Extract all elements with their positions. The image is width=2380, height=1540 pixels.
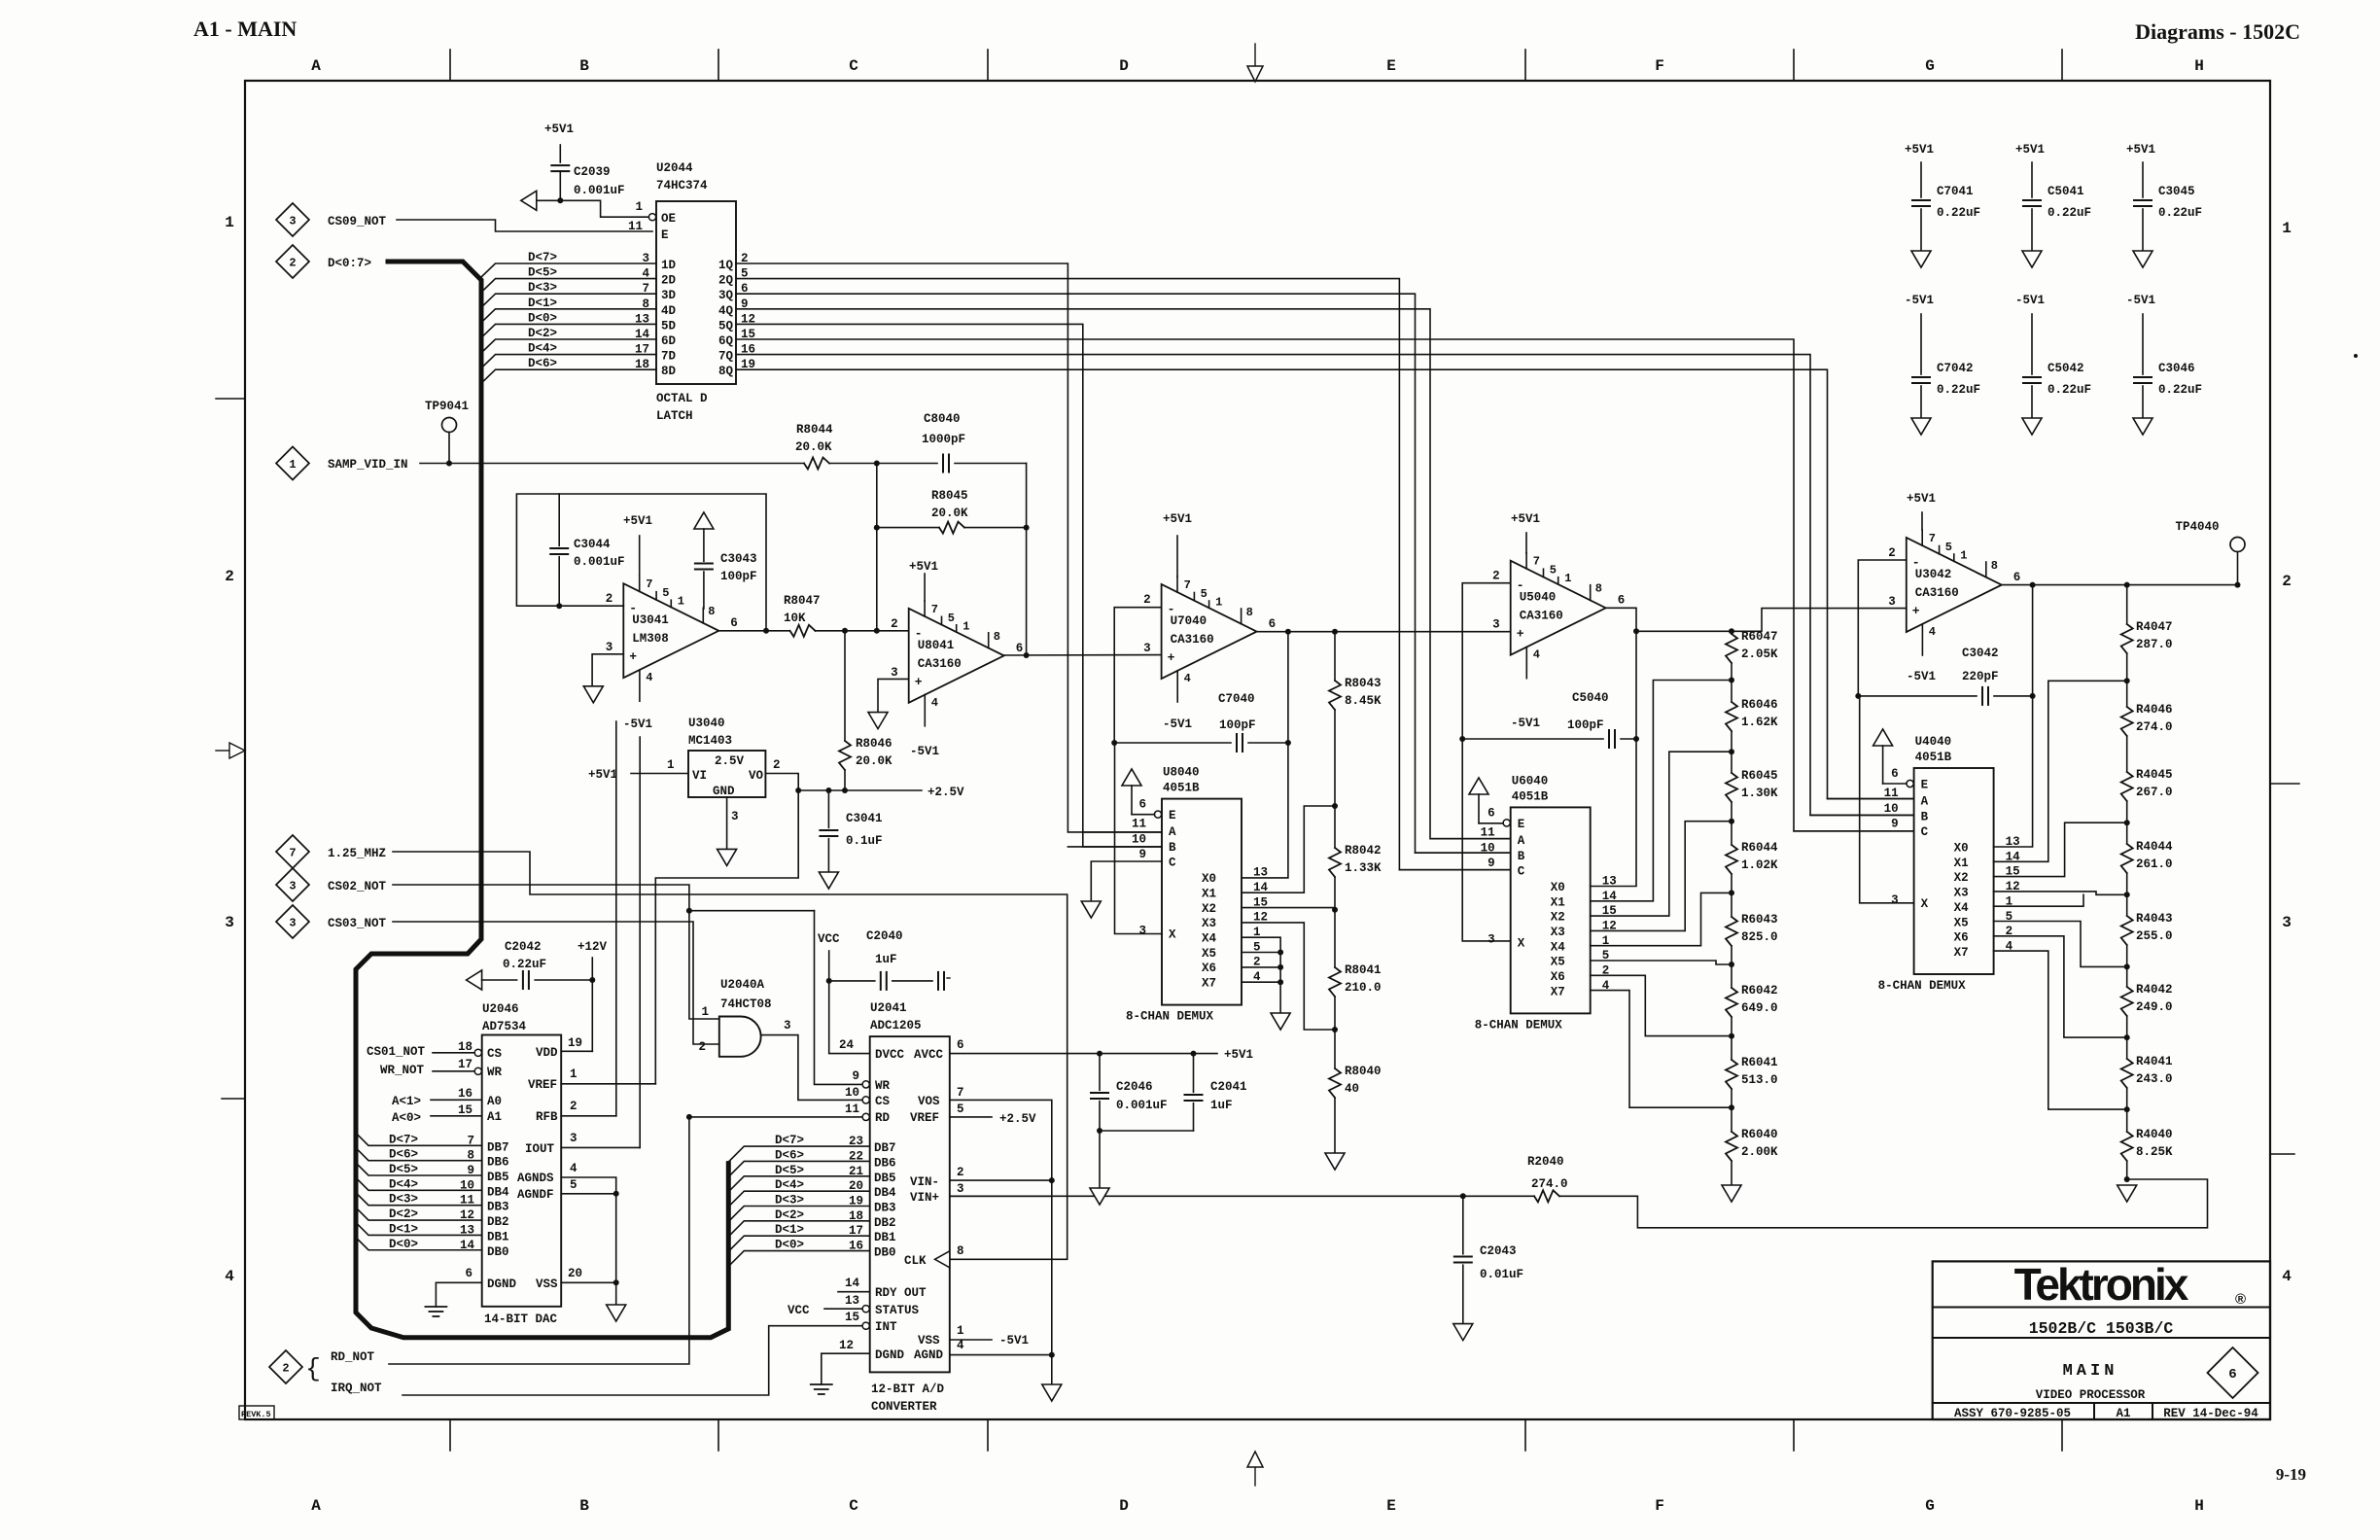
wire U6040 B bbox=[1416, 852, 1511, 854]
wire DAC AGNDS/AGNDF/VSS bbox=[561, 1177, 616, 1282]
svg-text:D: D bbox=[1119, 1497, 1129, 1515]
svg-text:8-CHAN DEMUX: 8-CHAN DEMUX bbox=[1878, 979, 1967, 993]
svg-text:R4044: R4044 bbox=[2136, 840, 2173, 854]
svg-text:U3041: U3041 bbox=[632, 613, 669, 627]
svg-text:5: 5 bbox=[662, 586, 669, 600]
svg-text:267.0: 267.0 bbox=[2136, 786, 2173, 799]
wire U2040A output to ADC CS bbox=[761, 1035, 862, 1101]
resistor R4047 bbox=[2126, 585, 2128, 624]
svg-text:A0: A0 bbox=[487, 1095, 502, 1108]
svg-text:2: 2 bbox=[957, 1166, 964, 1179]
svg-text:D<2>: D<2> bbox=[775, 1208, 804, 1222]
wire ADC VSS -5V1 bbox=[950, 1339, 992, 1341]
op-amp U3042 CA3160 bbox=[1907, 538, 2002, 632]
svg-text:D<0>: D<0> bbox=[389, 1238, 418, 1251]
svg-text:10: 10 bbox=[845, 1086, 859, 1100]
svg-text:74HCT08: 74HCT08 bbox=[720, 997, 772, 1011]
svg-text:12: 12 bbox=[839, 1339, 854, 1352]
svg-text:R8046: R8046 bbox=[856, 737, 892, 751]
svg-text:F: F bbox=[1655, 57, 1664, 75]
resistor R4044 bbox=[2126, 822, 2128, 844]
svg-text:3: 3 bbox=[2282, 914, 2292, 931]
svg-text:4: 4 bbox=[646, 671, 652, 684]
wire ADC AGND vertical bbox=[1051, 1180, 1053, 1355]
svg-text:E: E bbox=[1518, 818, 1525, 831]
svg-text:B: B bbox=[1169, 841, 1176, 855]
svg-text:11: 11 bbox=[1132, 818, 1146, 831]
svg-text:X3: X3 bbox=[1551, 926, 1565, 939]
wire U4040 A bbox=[1828, 798, 1914, 800]
resistor R4041 bbox=[2126, 1037, 2128, 1059]
svg-text:9-19: 9-19 bbox=[2276, 1465, 2306, 1484]
wire ADC VOS to VIN- bbox=[950, 1100, 1052, 1180]
connector D<0:7> bbox=[276, 245, 309, 278]
svg-text:10K: 10K bbox=[784, 612, 806, 625]
ground U8040 C pin bbox=[1091, 861, 1162, 901]
svg-text:274.0: 274.0 bbox=[1531, 1177, 1568, 1191]
svg-text:IOUT: IOUT bbox=[525, 1142, 555, 1156]
svg-text:RDY OUT: RDY OUT bbox=[875, 1286, 927, 1300]
svg-text:X4: X4 bbox=[1202, 932, 1217, 946]
svg-text:R4047: R4047 bbox=[2136, 620, 2173, 634]
svg-text:1Q: 1Q bbox=[718, 259, 734, 272]
svg-text:DGND: DGND bbox=[875, 1348, 905, 1362]
svg-text:WR: WR bbox=[487, 1066, 503, 1079]
svg-text:R6047: R6047 bbox=[1741, 630, 1778, 644]
wire DAC D<3> bbox=[356, 1193, 482, 1206]
svg-text:U3042: U3042 bbox=[1915, 568, 1952, 581]
svg-text:X1: X1 bbox=[1954, 857, 1969, 870]
ground arrow R4040 bbox=[2124, 1176, 2130, 1182]
connector SAMP_VID_IN bbox=[276, 447, 309, 480]
svg-text:Tektronix: Tektronix bbox=[2014, 1259, 2189, 1310]
svg-text:-5V1: -5V1 bbox=[1511, 717, 1540, 730]
svg-text:14-BIT DAC: 14-BIT DAC bbox=[484, 1312, 558, 1326]
power arrow left C2039 bbox=[521, 191, 537, 210]
svg-text:5D: 5D bbox=[661, 319, 677, 332]
svg-text:3: 3 bbox=[1487, 932, 1495, 946]
svg-text:1: 1 bbox=[570, 1067, 577, 1081]
svg-text:74HC374: 74HC374 bbox=[656, 179, 708, 192]
svg-text:1: 1 bbox=[678, 595, 684, 609]
svg-text:1.30K: 1.30K bbox=[1741, 787, 1778, 800]
svg-text:VIN+: VIN+ bbox=[910, 1191, 939, 1205]
svg-text:+: + bbox=[1912, 604, 1920, 618]
svg-text:20.0K: 20.0K bbox=[931, 507, 968, 520]
svg-text:R6043: R6043 bbox=[1741, 913, 1778, 927]
wire U3042 pin2 feedback bbox=[1858, 560, 1907, 696]
wire ADC D<6> bbox=[728, 1161, 869, 1176]
resistor R4043 bbox=[2126, 894, 2128, 916]
svg-text:-5V1: -5V1 bbox=[1905, 294, 1934, 307]
svg-text:{: { bbox=[305, 1354, 321, 1383]
svg-text:D<7>: D<7> bbox=[528, 251, 557, 264]
svg-text:D<5>: D<5> bbox=[528, 266, 557, 280]
svg-text:C: C bbox=[1169, 857, 1176, 870]
capacitor C8040 bbox=[878, 463, 937, 465]
svg-text:DB6: DB6 bbox=[487, 1156, 509, 1170]
wire ADC D<0> bbox=[728, 1251, 869, 1267]
wire ADC D<2> bbox=[728, 1221, 869, 1237]
svg-text:X7: X7 bbox=[1202, 977, 1216, 991]
svg-text:C3043: C3043 bbox=[720, 552, 757, 566]
svg-text:1: 1 bbox=[635, 200, 643, 214]
svg-text:CA3160: CA3160 bbox=[918, 657, 962, 671]
svg-text:H: H bbox=[2194, 57, 2204, 75]
svg-text:20: 20 bbox=[568, 1267, 582, 1280]
svg-text:A<1>: A<1> bbox=[392, 1095, 421, 1108]
svg-text:D<1>: D<1> bbox=[389, 1222, 418, 1236]
svg-text:4Q: 4Q bbox=[718, 304, 734, 318]
wire U4040 X1 bbox=[1994, 681, 2127, 861]
resistor R8047 bbox=[790, 625, 816, 637]
svg-text:X7: X7 bbox=[1551, 985, 1565, 998]
svg-text:0.001uF: 0.001uF bbox=[574, 555, 625, 569]
wire latch 1Q to demux bbox=[736, 263, 1162, 832]
svg-text:X5: X5 bbox=[1551, 956, 1565, 969]
svg-text:1.02K: 1.02K bbox=[1741, 858, 1778, 872]
svg-text:MAIN: MAIN bbox=[2063, 1362, 2118, 1381]
sheet diamond 6 bbox=[2208, 1347, 2258, 1398]
svg-text:D<0>: D<0> bbox=[775, 1239, 804, 1252]
svg-text:REV 14-Dec-94: REV 14-Dec-94 bbox=[2163, 1407, 2258, 1420]
svg-text:16: 16 bbox=[458, 1087, 472, 1101]
svg-text:11: 11 bbox=[628, 220, 643, 233]
wire U4040 X3 bbox=[1994, 892, 2127, 894]
svg-text:2: 2 bbox=[1888, 546, 1896, 560]
wire DAC D<5> bbox=[356, 1163, 482, 1175]
svg-text:8: 8 bbox=[1246, 606, 1253, 619]
svg-text:CA3160: CA3160 bbox=[1915, 586, 1959, 600]
svg-text:274.0: 274.0 bbox=[2136, 720, 2173, 734]
resistor R8041 bbox=[1334, 910, 1336, 967]
svg-text:C2042: C2042 bbox=[505, 940, 542, 954]
wire U6040 X2 bbox=[1591, 752, 1732, 916]
op-amp U7040 CA3160 bbox=[1162, 584, 1257, 679]
wire latch 8Q to demux bbox=[736, 369, 1914, 798]
wire decoupling bottom rail bbox=[1100, 1130, 1194, 1132]
svg-text:D<0:7>: D<0:7> bbox=[328, 257, 371, 270]
resistor R4042 bbox=[2126, 966, 2128, 987]
svg-text:3D: 3D bbox=[661, 289, 677, 302]
wire SAMP_VID_IN row bbox=[420, 463, 804, 465]
svg-text:C3044: C3044 bbox=[574, 538, 611, 551]
svg-text:D<4>: D<4> bbox=[528, 342, 557, 356]
svg-text:6: 6 bbox=[957, 1038, 964, 1052]
wire U3040 VO to +2.5V node bbox=[765, 774, 798, 791]
svg-text:G: G bbox=[1925, 57, 1935, 75]
svg-text:1000pF: 1000pF bbox=[922, 433, 965, 446]
rev box REVK.5 bbox=[239, 1406, 274, 1419]
svg-text:3: 3 bbox=[1888, 595, 1896, 609]
svg-text:X: X bbox=[1921, 897, 1929, 911]
svg-text:100pF: 100pF bbox=[1567, 718, 1604, 732]
svg-text:VSS: VSS bbox=[536, 1277, 558, 1291]
svg-text:TP9041: TP9041 bbox=[425, 400, 469, 413]
svg-text:DB5: DB5 bbox=[487, 1171, 509, 1184]
bus D<0:7> thick bbox=[356, 262, 728, 1338]
svg-text:C8040: C8040 bbox=[924, 412, 961, 426]
svg-text:X5: X5 bbox=[1954, 916, 1969, 929]
wire C7040 to output bbox=[1287, 632, 1289, 743]
capacitor C3041 bbox=[827, 790, 829, 827]
svg-text:R4043: R4043 bbox=[2136, 912, 2173, 926]
svg-text:VIN-: VIN- bbox=[910, 1175, 939, 1189]
svg-text:1: 1 bbox=[289, 458, 296, 472]
capacitor C2043 bbox=[1462, 1196, 1464, 1254]
wire IOUT riser bbox=[639, 737, 641, 1147]
svg-text:R6046: R6046 bbox=[1741, 698, 1778, 712]
svg-text:VCC: VCC bbox=[818, 932, 840, 946]
wire C2039 to OE bbox=[537, 200, 648, 217]
svg-text:4: 4 bbox=[1533, 648, 1540, 662]
svg-text:U7040: U7040 bbox=[1171, 614, 1207, 628]
svg-text:20.0K: 20.0K bbox=[795, 440, 832, 454]
wire U4040 B bbox=[1810, 814, 1914, 816]
svg-text:287.0: 287.0 bbox=[2136, 638, 2173, 651]
svg-text:5: 5 bbox=[1945, 541, 1952, 554]
svg-text:+5V1: +5V1 bbox=[1907, 492, 1936, 506]
svg-text:E: E bbox=[661, 228, 669, 242]
svg-text:CS03_NOT: CS03_NOT bbox=[328, 917, 387, 930]
power arrow U6040 E bbox=[1469, 778, 1488, 794]
svg-text:6: 6 bbox=[1618, 594, 1626, 608]
svg-text:1: 1 bbox=[2282, 220, 2292, 237]
svg-text:DB1: DB1 bbox=[487, 1230, 509, 1243]
svg-text:1: 1 bbox=[225, 214, 234, 231]
svg-text:10: 10 bbox=[1132, 833, 1146, 847]
svg-text:7: 7 bbox=[1533, 555, 1540, 569]
svg-text:D<7>: D<7> bbox=[389, 1133, 418, 1146]
wire DAC IOUT bbox=[561, 1146, 640, 1148]
svg-text:VREF: VREF bbox=[910, 1111, 939, 1125]
svg-text:VDD: VDD bbox=[536, 1046, 558, 1060]
grid row tick left bbox=[216, 398, 245, 400]
svg-text:4: 4 bbox=[931, 696, 938, 710]
wire U6040 X3 bbox=[1591, 822, 1732, 931]
resistor R6040 bbox=[1731, 1107, 1732, 1132]
svg-text:3: 3 bbox=[289, 880, 296, 893]
wire D input D<6> bbox=[481, 369, 656, 383]
svg-text:C3045: C3045 bbox=[2158, 185, 2195, 198]
svg-text:2: 2 bbox=[225, 568, 234, 585]
wire D input D<3> bbox=[481, 294, 656, 307]
grid row tick left lower bbox=[222, 1098, 245, 1100]
wire U4040 X to C3042 row bbox=[1860, 696, 1914, 903]
svg-text:D<3>: D<3> bbox=[389, 1193, 418, 1207]
wire latch 4Q to demux bbox=[736, 309, 1511, 839]
wire ADC RDY OUT stub bbox=[838, 1291, 870, 1293]
svg-text:R6041: R6041 bbox=[1741, 1056, 1778, 1069]
svg-text:3: 3 bbox=[289, 917, 296, 930]
svg-text:4051B: 4051B bbox=[1512, 789, 1549, 803]
svg-text:0.1uF: 0.1uF bbox=[846, 834, 883, 848]
svg-text:0.22uF: 0.22uF bbox=[2158, 206, 2202, 220]
svg-text:IRQ_NOT: IRQ_NOT bbox=[331, 1382, 382, 1395]
svg-text:X1: X1 bbox=[1551, 895, 1565, 909]
svg-text:2: 2 bbox=[282, 1362, 289, 1376]
wire D input D<0> bbox=[481, 324, 656, 337]
svg-text:C5042: C5042 bbox=[2047, 362, 2084, 375]
grid top arrow at D/E bbox=[1254, 44, 1256, 66]
wire CS09_NOT to latch bbox=[397, 220, 652, 231]
svg-text:4051B: 4051B bbox=[1163, 782, 1200, 795]
svg-text:X2: X2 bbox=[1202, 902, 1216, 916]
svg-text:CA3160: CA3160 bbox=[1520, 610, 1563, 623]
svg-text:13: 13 bbox=[845, 1294, 859, 1308]
wire U7040 pin2 feedback bbox=[1114, 608, 1161, 743]
svg-text:6: 6 bbox=[1487, 806, 1495, 820]
capacitor C3045 bbox=[2142, 162, 2144, 197]
svg-text:VOS: VOS bbox=[918, 1095, 940, 1108]
svg-text:8Q: 8Q bbox=[718, 365, 734, 378]
svg-text:G: G bbox=[1925, 1497, 1935, 1515]
svg-text:X4: X4 bbox=[1954, 901, 1970, 915]
svg-text:D: D bbox=[1119, 57, 1129, 75]
svg-text:+2.5V: +2.5V bbox=[999, 1112, 1036, 1126]
svg-text:5: 5 bbox=[1201, 587, 1207, 601]
svg-text:X1: X1 bbox=[1202, 887, 1216, 900]
wire ADC VREF +2.5V bbox=[950, 1116, 992, 1118]
svg-text:C7042: C7042 bbox=[1937, 362, 1974, 375]
svg-text:X0: X0 bbox=[1954, 842, 1969, 856]
svg-text:4: 4 bbox=[1929, 625, 1936, 639]
svg-text:DB2: DB2 bbox=[874, 1216, 896, 1230]
svg-text:X3: X3 bbox=[1202, 917, 1216, 930]
connector 1.25_MHZ bbox=[276, 835, 309, 868]
svg-text:C2046: C2046 bbox=[1116, 1080, 1153, 1094]
svg-text:R4046: R4046 bbox=[2136, 703, 2173, 717]
svg-text:6: 6 bbox=[1891, 767, 1899, 781]
svg-text:X7: X7 bbox=[1954, 946, 1969, 960]
svg-text:C3046: C3046 bbox=[2158, 362, 2195, 375]
wire DAC D<1> bbox=[356, 1222, 482, 1235]
wire C3042 to output bbox=[2032, 585, 2034, 696]
ground ADC DGND bbox=[822, 1353, 870, 1384]
svg-text:R4042: R4042 bbox=[2136, 983, 2173, 997]
svg-text:4051B: 4051B bbox=[1915, 751, 1952, 764]
svg-text:+: + bbox=[1168, 650, 1175, 665]
resistor R4045 bbox=[2121, 772, 2133, 801]
svg-text:DVCC: DVCC bbox=[875, 1048, 905, 1062]
svg-text:+5V1: +5V1 bbox=[1905, 143, 1934, 157]
svg-text:ADC1205: ADC1205 bbox=[870, 1019, 922, 1032]
wire ADC D<5> bbox=[728, 1176, 869, 1192]
svg-text:14: 14 bbox=[845, 1277, 860, 1290]
capacitor C5042 bbox=[2031, 314, 2033, 374]
svg-text:A<0>: A<0> bbox=[392, 1111, 421, 1125]
svg-text:5Q: 5Q bbox=[718, 319, 734, 332]
svg-text:6: 6 bbox=[1016, 642, 1024, 655]
svg-text:WR_NOT: WR_NOT bbox=[380, 1064, 425, 1077]
svg-text:4: 4 bbox=[1184, 672, 1191, 685]
svg-text:X0: X0 bbox=[1202, 872, 1216, 886]
wire VIN+ row bbox=[950, 1195, 1534, 1197]
ground U3041 pin3 bbox=[592, 654, 623, 686]
svg-text:STATUS: STATUS bbox=[875, 1304, 920, 1317]
svg-text:D<4>: D<4> bbox=[775, 1178, 804, 1192]
svg-text:AGNDF: AGNDF bbox=[517, 1188, 554, 1202]
resistor R6042 bbox=[1731, 964, 1732, 988]
capacitor C2046 bbox=[1099, 1054, 1101, 1091]
ground arrow R8040 bbox=[1325, 1153, 1345, 1170]
svg-text:D<3>: D<3> bbox=[528, 281, 557, 295]
wire U4040 X4 bbox=[1994, 894, 2083, 906]
resistor R6041 bbox=[1731, 1036, 1732, 1060]
wire U6040 X7 bbox=[1591, 991, 1732, 1108]
svg-text:5: 5 bbox=[570, 1178, 577, 1192]
svg-text:GND: GND bbox=[713, 785, 735, 798]
ground DAC DGND bbox=[436, 1282, 481, 1307]
svg-text:R8043: R8043 bbox=[1345, 677, 1382, 690]
svg-text:9: 9 bbox=[852, 1069, 859, 1083]
svg-text:6D: 6D bbox=[661, 334, 677, 348]
grid column ticks top bbox=[449, 50, 451, 81]
svg-text:19: 19 bbox=[568, 1036, 582, 1050]
svg-text:A: A bbox=[1518, 834, 1525, 848]
svg-text:R8045: R8045 bbox=[931, 489, 968, 503]
svg-text:D<2>: D<2> bbox=[389, 1207, 418, 1221]
wire U6040 C bbox=[1399, 869, 1510, 871]
wire latch 2Q to demux bbox=[736, 279, 1511, 870]
wire U6040 X0 bbox=[1591, 739, 1636, 887]
svg-text:-5V1: -5V1 bbox=[910, 745, 939, 758]
wire +12V to VDD bbox=[561, 1050, 592, 1052]
power arrow U8040 E bbox=[1122, 769, 1141, 786]
svg-text:X6: X6 bbox=[1551, 970, 1565, 984]
svg-text:U5040: U5040 bbox=[1520, 591, 1557, 605]
svg-text:8: 8 bbox=[1991, 559, 1998, 573]
svg-text:AGND: AGND bbox=[914, 1348, 944, 1362]
svg-text:X4: X4 bbox=[1551, 940, 1566, 954]
svg-text:CS: CS bbox=[875, 1095, 891, 1108]
wire C8040 right leg down bbox=[1026, 464, 1028, 656]
wire latch 7Q to demux bbox=[736, 355, 1914, 816]
wire U8040 X4-X7 to ground bbox=[1242, 937, 1280, 1013]
svg-text:DB0: DB0 bbox=[874, 1246, 896, 1260]
svg-text:CLK: CLK bbox=[904, 1254, 927, 1268]
wire RD_NOT net bbox=[389, 1117, 862, 1364]
ADC U2041 ADC1205 bbox=[870, 1036, 950, 1372]
svg-text:A1 - MAIN: A1 - MAIN bbox=[193, 17, 297, 41]
svg-text:A: A bbox=[1169, 825, 1176, 839]
connector CS03_NOT bbox=[276, 905, 309, 938]
svg-text:3: 3 bbox=[1143, 642, 1151, 655]
wire U4040 X6 bbox=[1994, 936, 2127, 1037]
wire D input D<5> bbox=[481, 279, 656, 293]
svg-text:RD_NOT: RD_NOT bbox=[331, 1350, 375, 1364]
wire RFB riser bbox=[615, 721, 617, 1116]
svg-text:R6040: R6040 bbox=[1741, 1128, 1778, 1141]
svg-text:VCC: VCC bbox=[787, 1304, 810, 1317]
resistor R8042 bbox=[1334, 806, 1336, 848]
svg-text:C2041: C2041 bbox=[1210, 1080, 1247, 1094]
wire U4040 X2 bbox=[1994, 822, 2127, 876]
svg-text:3: 3 bbox=[731, 810, 739, 823]
wire U8040 X2 bbox=[1242, 908, 1335, 910]
svg-text:WR: WR bbox=[875, 1079, 891, 1093]
grid bottom arrow at D/E bbox=[1254, 1467, 1256, 1486]
op-amp U5040 CA3160 bbox=[1511, 561, 1606, 655]
svg-text:4D: 4D bbox=[661, 304, 677, 318]
svg-text:U3040: U3040 bbox=[688, 717, 725, 730]
grid row tick right bbox=[2270, 783, 2299, 785]
svg-text:U2046: U2046 bbox=[482, 1002, 519, 1016]
demux U6040 bbox=[1511, 807, 1591, 1013]
svg-text:U6040: U6040 bbox=[1512, 774, 1549, 787]
border frame bbox=[245, 81, 2270, 1419]
resistor R8045 bbox=[876, 464, 878, 631]
